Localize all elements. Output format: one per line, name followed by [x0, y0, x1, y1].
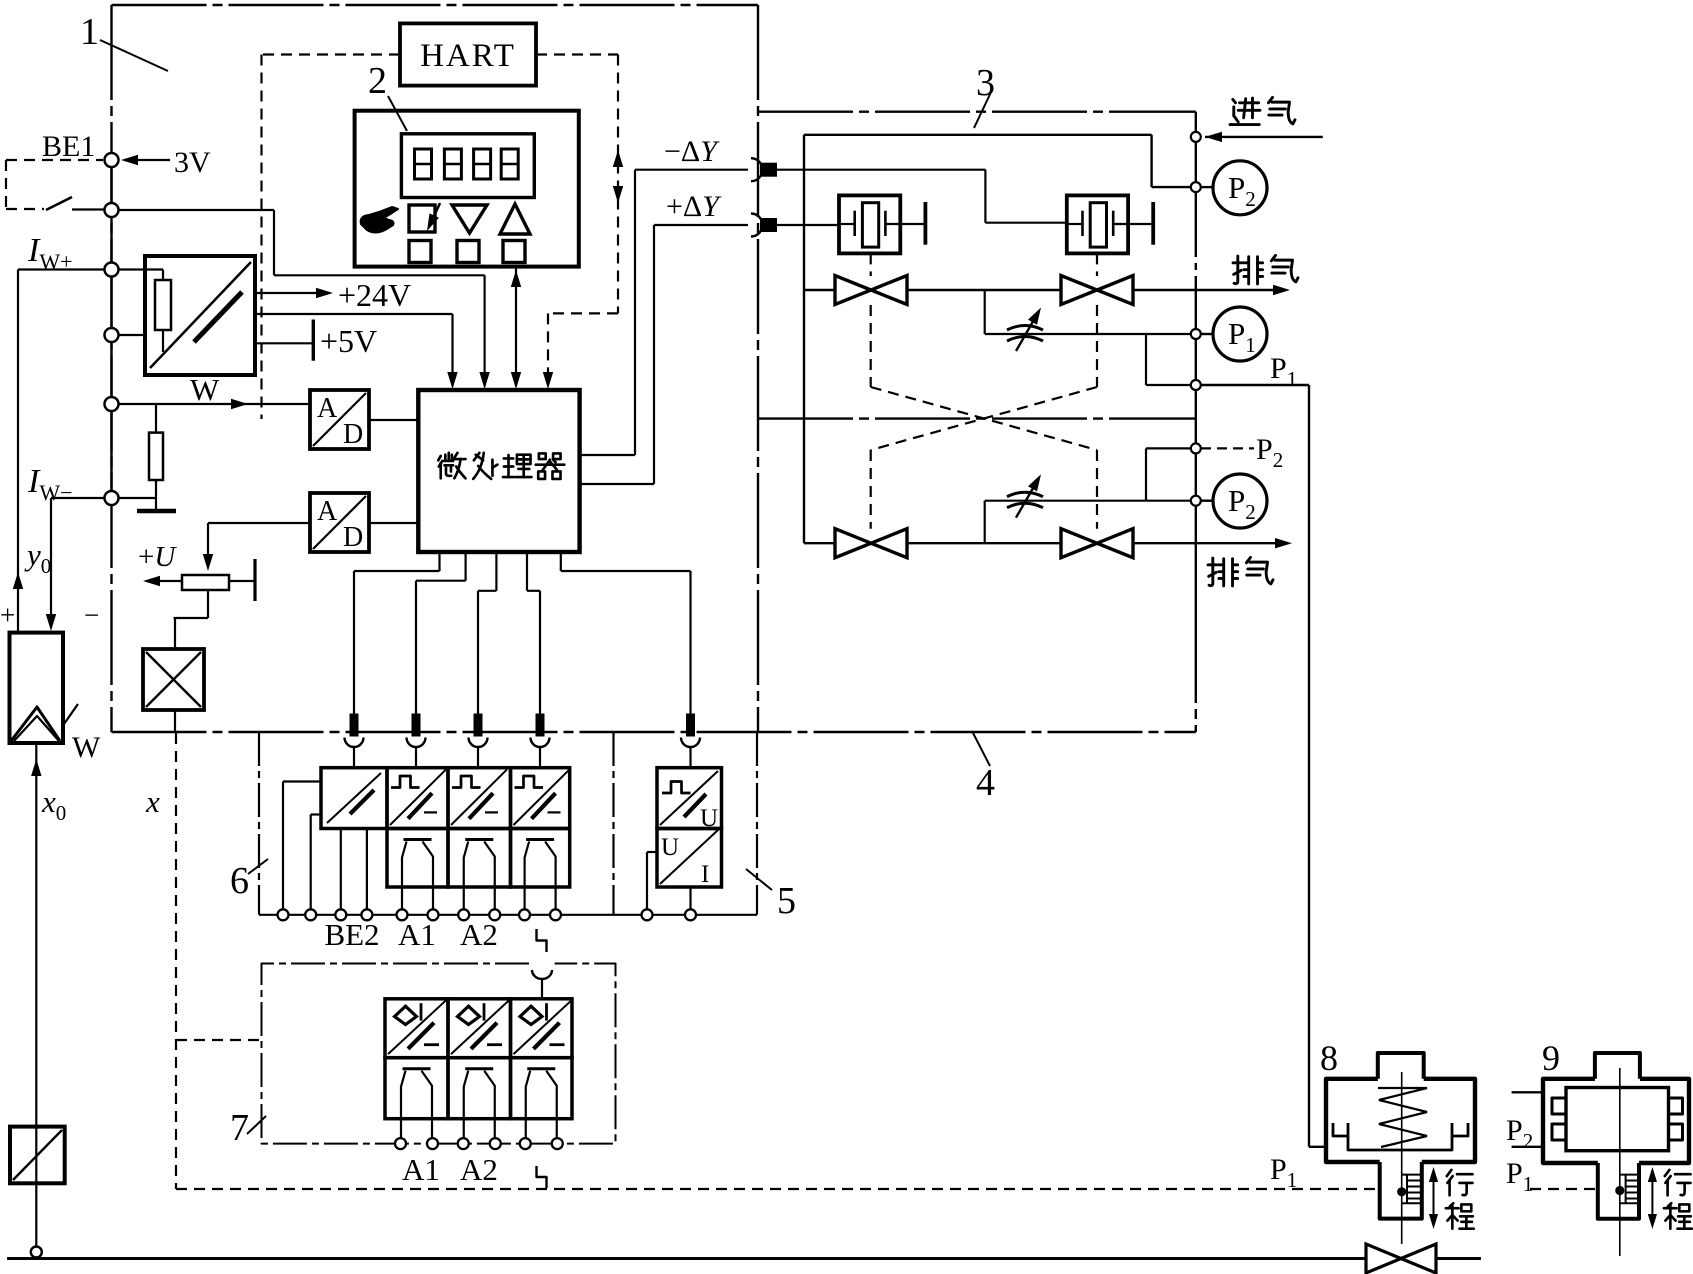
svg-text:A: A	[317, 393, 338, 424]
svg-text:1: 1	[80, 11, 99, 53]
svg-text:U: U	[661, 834, 679, 861]
svg-text:A2: A2	[460, 1152, 498, 1187]
svg-text:+24V: +24V	[338, 277, 411, 313]
svg-text:BE1: BE1	[42, 130, 95, 163]
svg-text:6: 6	[230, 860, 249, 902]
svg-text:W: W	[72, 731, 101, 764]
svg-text:I: I	[701, 861, 709, 888]
svg-text:2: 2	[368, 60, 387, 102]
svg-text:7: 7	[230, 1107, 249, 1149]
svg-text:BE2: BE2	[324, 917, 379, 952]
svg-text:9: 9	[1542, 1038, 1560, 1078]
svg-text:A: A	[317, 496, 338, 527]
svg-text:D: D	[343, 419, 363, 450]
svg-text:+ΔY: +ΔY	[666, 190, 722, 223]
svg-text:+5V: +5V	[320, 323, 377, 359]
svg-text:3: 3	[976, 62, 995, 104]
svg-text:5: 5	[777, 880, 796, 922]
svg-text:4: 4	[976, 762, 995, 804]
svg-text:8: 8	[1320, 1038, 1338, 1078]
svg-text:−ΔY: −ΔY	[664, 135, 720, 168]
svg-text:+U: +U	[138, 541, 177, 573]
svg-text:HART: HART	[420, 38, 516, 74]
svg-text:U: U	[700, 805, 718, 832]
svg-text:W: W	[190, 372, 220, 407]
svg-text:A1: A1	[398, 917, 436, 952]
svg-text:D: D	[343, 522, 363, 553]
svg-text:+: +	[0, 600, 15, 630]
svg-text:A1: A1	[402, 1152, 440, 1187]
svg-text:3V: 3V	[174, 146, 211, 179]
svg-text:A2: A2	[460, 917, 498, 952]
svg-text:x: x	[145, 784, 160, 819]
svg-text:−: −	[84, 600, 99, 630]
